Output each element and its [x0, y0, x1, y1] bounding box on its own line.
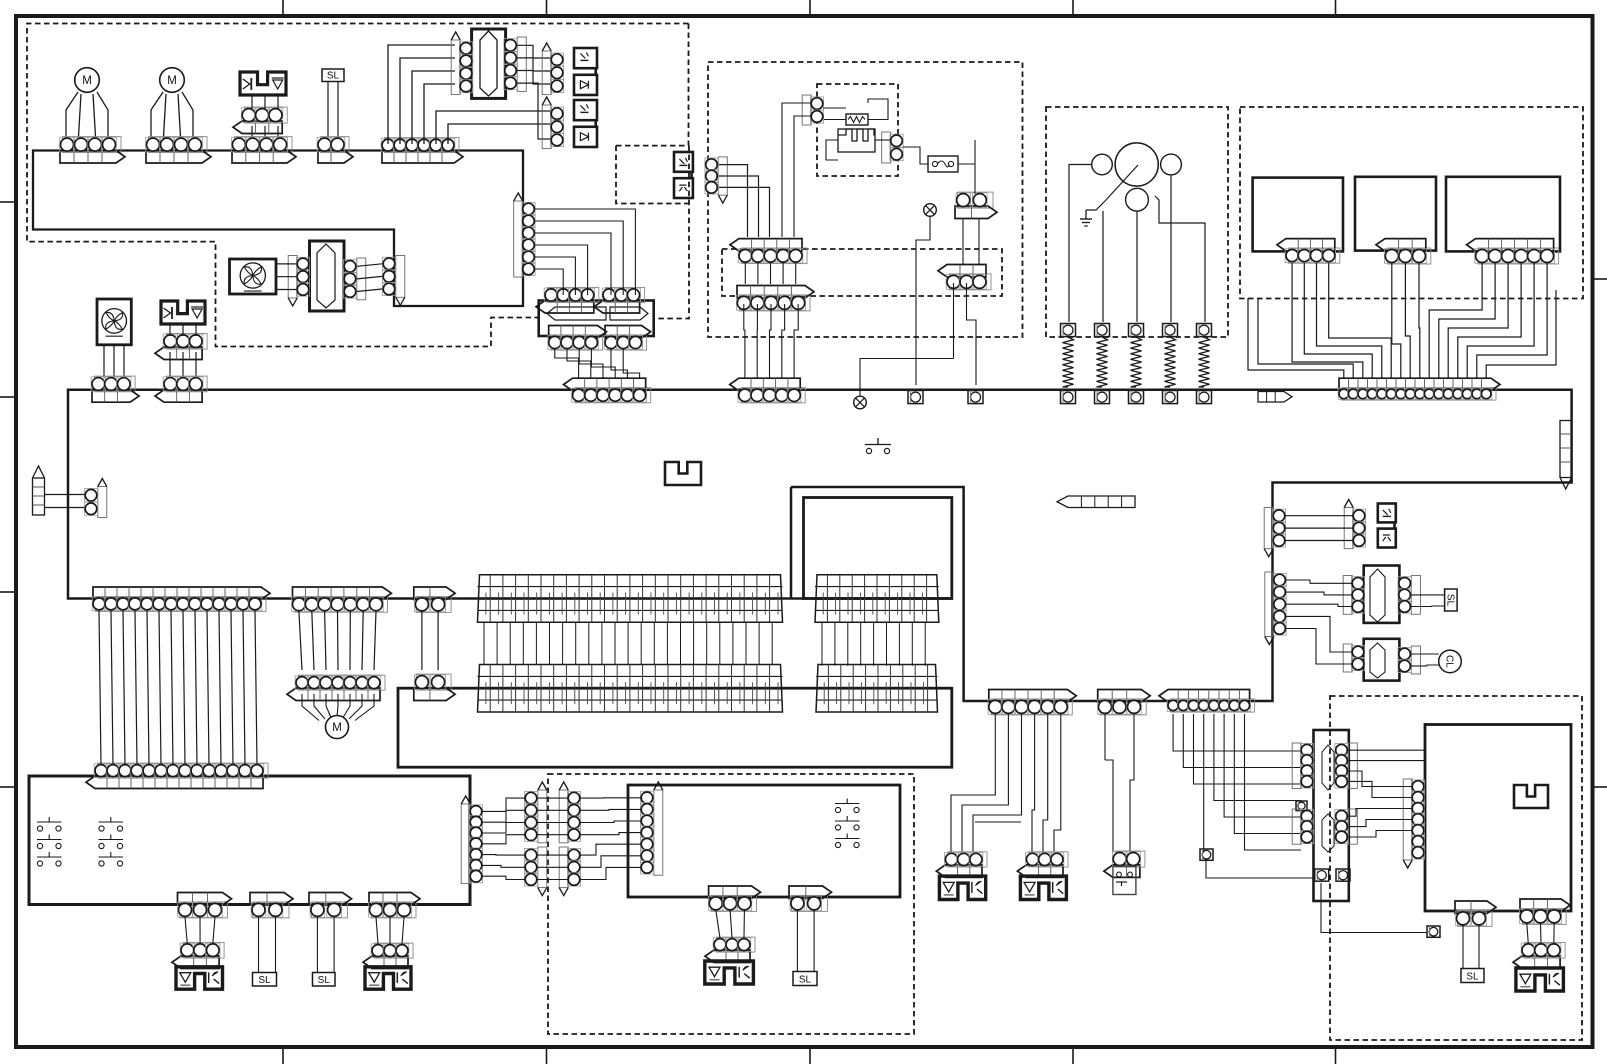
connector J-B1b (14pin) — [98, 763, 269, 778]
photo-interrupter PI1 — [542, 51, 551, 95]
dashed enclosure D3 fuser — [1046, 107, 1228, 337]
photo-interrupter PI2 — [542, 105, 551, 149]
connector CL1 sub — [245, 107, 288, 123]
connector pair — [98, 487, 107, 518]
connector J-H1 — [180, 902, 228, 918]
wires J-F1 to solenoids — [951, 714, 995, 852]
resistor R1 — [846, 114, 868, 125]
fan FM1 — [97, 299, 131, 345]
SL box H2 — [253, 973, 277, 987]
connector J-K1 — [1458, 910, 1493, 926]
stair wires A3 — [1286, 616, 1352, 652]
flat-cable comb 4 bottom — [816, 665, 938, 713]
finisher terminals — [1315, 869, 1329, 881]
notch glyph FG2 — [1514, 785, 1548, 808]
bottom-left unit box — [29, 776, 470, 905]
connector J-B2b (7pin) — [299, 675, 386, 690]
wires AC1-AC2 region — [744, 262, 746, 284]
registration tick marks — [282, 0, 284, 15]
bus square terminals — [908, 391, 923, 404]
svg-text:SL: SL — [318, 975, 331, 986]
fuser roller circles — [1115, 143, 1158, 186]
bottom-middle inner box — [628, 785, 900, 897]
ground in fuser — [1069, 165, 1092, 323]
motor M1 — [75, 68, 100, 93]
transformer T1 — [472, 29, 506, 98]
relay contacts K1 — [37, 826, 42, 831]
clutch block A2 — [1364, 566, 1400, 623]
flat-cable comb 3 bottom — [478, 665, 783, 713]
wire bundle 14 — [99, 611, 101, 765]
SL rotated box — [1445, 589, 1458, 611]
svg-text:SL: SL — [327, 70, 340, 81]
PCB box 1 — [1253, 178, 1343, 252]
stacked connectors pair1 — [538, 790, 547, 843]
fan FM2 — [230, 259, 277, 294]
wires PI0 to J-AC1 — [719, 165, 748, 237]
transformer T2 — [310, 241, 345, 311]
connector RL-top2 — [606, 287, 645, 302]
connector J-K2 — [1523, 908, 1567, 924]
connector J-SLa — [948, 852, 987, 867]
wires relay to bus — [555, 349, 579, 378]
PCB box 2 — [1355, 177, 1436, 251]
fuser terminals and springs — [1061, 324, 1076, 337]
stair wires V6 to relay top — [535, 209, 635, 295]
lamp LA1 — [924, 204, 937, 217]
connector ML7 — [461, 804, 470, 884]
SL box K1 — [1461, 969, 1484, 983]
connector J-B3 (2pin) — [416, 596, 451, 612]
solenoid SL-H1 — [176, 967, 223, 989]
wire bundle 7 — [299, 611, 302, 670]
connector J-AC3 (bus) — [741, 388, 805, 403]
connector J-I1 — [711, 895, 756, 911]
clutch block A3 — [1364, 639, 1400, 681]
thermal fuse F1 — [928, 156, 958, 172]
wires into inner box — [1348, 749, 1425, 751]
connector CL2 sub — [167, 333, 208, 349]
notch glyph FG1 — [665, 462, 701, 485]
connector J-FM1 — [95, 376, 136, 392]
right vertical connector on rail — [1560, 421, 1572, 478]
relay contacts K2 — [99, 826, 104, 831]
stacked connectors pair2 — [559, 790, 568, 843]
connector MR7 — [654, 790, 663, 875]
connector J-T2out — [396, 256, 405, 298]
solenoid SL-H4 — [365, 967, 411, 989]
wires J-F2 to thermostat — [1104, 714, 1106, 760]
connector J-H3 — [312, 902, 348, 918]
comb interconnect wires — [483, 622, 485, 665]
connector RL-bot2 — [608, 335, 647, 350]
dashed enclosure D2-thin — [722, 249, 1002, 296]
vertical connector VH1 — [802, 95, 811, 125]
solenoid SL-K2 — [1516, 968, 1564, 991]
connector J-H1b — [184, 942, 225, 958]
connector J-LA (3pin) — [950, 274, 992, 290]
connector J-F2 (3pin) — [1100, 699, 1146, 715]
clutch CL1 symbol — [240, 72, 286, 95]
solenoid SL-I1 — [705, 961, 754, 984]
connector J-AC1 (5pin) — [742, 248, 808, 264]
connector A1-R — [1344, 508, 1353, 549]
connector J-LMP (2pin) — [958, 192, 994, 208]
connector J-I2 — [792, 895, 828, 911]
motor M2 — [160, 68, 185, 93]
dashed enclosure D5 bottom-middle — [548, 774, 914, 1034]
connector J-F1 (6pin) — [991, 699, 1072, 715]
svg-text:M: M — [332, 722, 342, 734]
connector stub left — [33, 478, 45, 515]
contact glyph inner — [835, 807, 840, 812]
main PCB box (bottom mid) — [398, 688, 952, 767]
connector J-AC2 (5pin) — [740, 295, 811, 311]
wire main power rail — [68, 390, 1572, 701]
svg-text:SL: SL — [799, 974, 812, 985]
stair wires A2 — [1286, 580, 1352, 583]
wire main loop top-left — [33, 151, 523, 307]
thermostat TH1 — [1115, 851, 1145, 867]
SL box I2 — [793, 972, 817, 986]
connector RL-bot1 — [551, 335, 602, 350]
dashed enclosure D1 top-left — [27, 24, 689, 347]
finisher column block — [1314, 730, 1349, 901]
connector P3 (6pin) — [1478, 248, 1559, 264]
inline connector bar 3cell — [1258, 392, 1292, 403]
inline connector bar 5cell — [1057, 496, 1135, 508]
CL circle — [1439, 650, 1462, 673]
lamp LA2 on bus — [854, 396, 867, 409]
wire bundle PCBs to J-16 — [1292, 263, 1363, 378]
dashed enclosure D1b small — [616, 145, 689, 147]
photo-interrupter PI0 — [674, 152, 693, 172]
connector J-M1 — [63, 137, 122, 153]
connector T1-L — [451, 40, 460, 94]
svg-text:CL: CL — [1444, 655, 1455, 668]
extra wires from left into J-16 — [1248, 298, 1344, 378]
connector K7 — [1403, 779, 1412, 860]
connector J-F3 (8pin) — [1171, 699, 1255, 712]
connector J-CL2 — [167, 376, 208, 392]
wires J-F3 to finisher column — [1173, 714, 1301, 751]
photo-interrupter PI-A1 — [1378, 504, 1396, 523]
flat-cable comb 1 top — [478, 575, 783, 622]
connector J-H2 — [253, 902, 290, 918]
connector J-B3b (2pin) — [416, 674, 451, 690]
stair wires finisher — [1348, 771, 1412, 787]
motor M3 with fan-in — [326, 716, 349, 739]
connector J-B2 (7pin) — [295, 596, 388, 612]
connector J-B1 (14pin) — [96, 596, 267, 611]
connector P2 (3pin) — [1388, 248, 1431, 264]
svg-text:SL: SL — [1444, 594, 1455, 607]
dashed enclosure D2-inner — [817, 84, 898, 176]
wires VH1 left to AC1 — [782, 103, 811, 237]
solenoid SLa — [939, 876, 985, 899]
flat-cable comb 2 top — [815, 575, 939, 622]
vertical connector VH2 — [882, 132, 891, 163]
push button SW1 — [866, 448, 871, 453]
op-panel inner box — [804, 498, 952, 599]
PCB box 3 — [1446, 177, 1560, 252]
connector J-16 (16pin bus) — [1342, 388, 1497, 401]
dashed enclosure D6 bottom-right — [1330, 696, 1582, 1040]
connector J-SLb — [1029, 852, 1068, 867]
connector T1-R — [517, 37, 526, 91]
connector T2-L — [288, 256, 297, 298]
connector A2-L (5pin) — [1265, 572, 1274, 637]
svg-text:SL: SL — [258, 975, 271, 986]
connector J-PS (6pin) — [385, 138, 460, 153]
connector P1 (4pin) — [1289, 248, 1340, 263]
dashed enclosure D2 middle — [708, 62, 1023, 337]
SL1 label box — [322, 69, 344, 82]
connector J-RL (6pin bus) — [575, 388, 651, 403]
solenoid SLb — [1020, 876, 1066, 899]
connector J-SL1 — [321, 137, 350, 153]
clutch CL2 symbol — [161, 301, 205, 324]
vertical connector V6 — [514, 201, 523, 277]
wires to transformer — [388, 45, 455, 144]
heater H1 — [838, 129, 875, 141]
svg-text:M: M — [82, 75, 92, 87]
wire with inline terminal — [1204, 714, 1206, 855]
connector RL-top1 — [548, 287, 599, 302]
wire op-panel outer left edge — [790, 487, 793, 599]
svg-text:SL: SL — [1466, 971, 1479, 982]
wires T1 to PI1 — [517, 45, 551, 58]
svg-text:M: M — [167, 75, 177, 87]
stair wires left-mid — [483, 798, 525, 811]
connector T2-R — [357, 258, 366, 300]
SL box H3 — [313, 973, 336, 987]
connector J-M2 — [149, 137, 208, 153]
inline terminal small — [1427, 926, 1440, 937]
wires to bus terminals — [962, 219, 964, 264]
relay unit box — [539, 301, 654, 337]
dashed enclosure D4 right PCBs — [1240, 107, 1583, 299]
connector A1-L — [1264, 508, 1273, 549]
connector J-CL1 — [235, 137, 293, 153]
connector J-H4 — [372, 902, 417, 918]
bottom-right inner box — [1425, 725, 1571, 912]
